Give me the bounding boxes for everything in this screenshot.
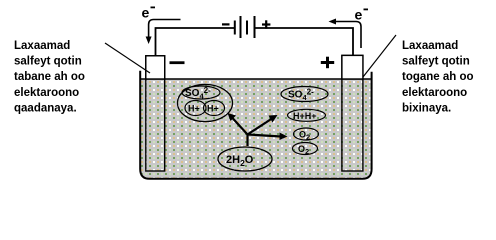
- svg-text:togane ah oo: togane ah oo: [402, 71, 474, 83]
- liquid (electrolyte solution): [141, 80, 371, 178]
- svg-text:salfeyt qotin: salfeyt qotin: [14, 56, 82, 68]
- leader line from left text to cathode: [105, 43, 150, 73]
- beaker outline: [140, 71, 371, 179]
- electrode left (cathode) upper white part: [146, 56, 165, 79]
- minus polarity label at left electrode: [170, 61, 185, 64]
- right sulfate ion SO4 2- ellipse: [281, 87, 328, 103]
- svg-text:Laxaamad: Laxaamad: [14, 40, 70, 52]
- right hydrogen ions H+H+ ellipse: [288, 109, 326, 121]
- battery minus terminal label: [222, 23, 230, 25]
- svg-text:Laxaamad: Laxaamad: [402, 40, 458, 52]
- reaction arrow stem from 2H2O: [246, 135, 248, 147]
- svg-text:H+: H+: [188, 104, 200, 114]
- electrode right (anode) submerged outline: [342, 55, 363, 171]
- electron flow arrow left (into cathode): [146, 20, 181, 45]
- svg-text:elektaroono: elektaroono: [14, 87, 79, 99]
- annotation text left: [14, 40, 85, 114]
- svg-text:H+H+: H+H+: [293, 111, 317, 121]
- battery B1: [235, 16, 255, 38]
- svg-text:tabane ah oo: tabane ah oo: [14, 71, 85, 83]
- svg-text:qaadanaya.: qaadanaya.: [14, 102, 77, 114]
- left hydrogen ions H+ H+ ellipses: [185, 101, 225, 116]
- svg-text:salfeyt qotin: salfeyt qotin: [402, 56, 470, 68]
- svg-text:e: e: [142, 5, 150, 21]
- wire from battery negative to left electrode: [156, 28, 235, 56]
- wire from battery positive to right electrode: [255, 28, 354, 56]
- electrode right (anode) upper white part: [342, 55, 363, 79]
- svg-text:bixinaya.: bixinaya.: [402, 102, 451, 114]
- reaction arrow to O2 molecules: [248, 133, 288, 141]
- svg-text:elektaroono: elektaroono: [402, 87, 467, 99]
- electron flow label e- left: [142, 5, 156, 21]
- left sulfate ion SO4 2- ellipse: [182, 86, 220, 101]
- battery plus terminal label: [262, 20, 270, 28]
- svg-text:H+: H+: [207, 104, 219, 114]
- electron flow label e- right: [355, 7, 369, 23]
- plus polarity label at right electrode: [321, 57, 334, 68]
- reaction arrow to right H+ ions: [248, 115, 278, 135]
- reaction arrow to left H+ ions: [228, 113, 248, 135]
- svg-text:e: e: [355, 7, 363, 23]
- liquid surface line: [140, 78, 371, 80]
- electron flow arrow right (out of anode): [329, 19, 362, 49]
- electrode left (cathode) submerged outline: [146, 56, 165, 171]
- left ion group outer ellipse: [178, 84, 233, 121]
- svg-text:2H2O: 2H2O: [226, 154, 254, 168]
- annotation text right: [402, 40, 474, 114]
- water molecule 2H2O ellipse: [218, 147, 272, 171]
- leader line from right text to anode: [363, 35, 396, 77]
- oxygen molecule O2 ellipse lower: [293, 143, 318, 157]
- oxygen molecule O2 ellipse upper: [294, 128, 319, 142]
